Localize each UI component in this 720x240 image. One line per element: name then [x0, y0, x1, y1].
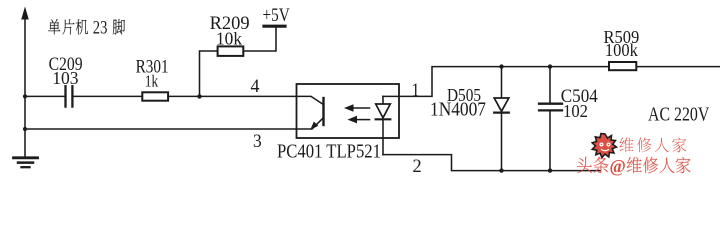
- node: junction to R209 branch: [197, 94, 201, 98]
- node: D505/top bus: [499, 64, 503, 68]
- watermark line1 维修人家: [619, 137, 686, 152]
- wire: rail to opto box pin 3: [25, 128, 297, 130]
- label: 单片机 23 脚 (MCU pin 23): [48, 19, 125, 39]
- svg-text:103: 103: [52, 68, 78, 88]
- node: D505/bottom bus: [499, 168, 503, 172]
- phototransistor collector (pin 4 side): [297, 96, 324, 104]
- power +5V bar: [264, 25, 285, 28]
- diode D505 triangle: [494, 98, 509, 111]
- wire: box pin1 to top-right bus: [383, 67, 720, 97]
- svg-text:10k: 10k: [216, 29, 242, 49]
- LED anode line (to pin 1): [382, 96, 384, 104]
- node: junction rail/lower wire: [23, 127, 27, 131]
- LED cathode line through box bottom (pin 2): [382, 119, 384, 154]
- svg-text:1N4007: 1N4007: [430, 100, 486, 121]
- svg-text:1k: 1k: [145, 72, 159, 91]
- wire: C504 bottom: [549, 111, 551, 171]
- wire: riser to R209: [200, 51, 218, 96]
- resistor R209: [218, 46, 244, 56]
- svg-text:PC401 TLP521: PC401 TLP521: [277, 140, 381, 162]
- light arrow upper: [352, 107, 370, 109]
- wire: D505 top: [501, 67, 503, 98]
- svg-text:1: 1: [412, 80, 420, 101]
- node: C504/bottom bus: [548, 168, 552, 172]
- resistor R301: [142, 92, 168, 100]
- light arrow lower: [356, 119, 370, 121]
- wire: R301 to opto box: [168, 95, 296, 97]
- svg-text:@: @: [610, 156, 626, 176]
- svg-text:+5V: +5V: [263, 5, 290, 26]
- phototransistor base bar: [322, 98, 324, 125]
- wire: D505 bottom: [501, 113, 503, 171]
- node: C504/top bus: [548, 64, 552, 68]
- node: junction rail/top wire: [23, 94, 27, 98]
- wire: C209 to R301: [74, 95, 143, 97]
- svg-text:3: 3: [253, 132, 262, 152]
- watermark line2 头条@维修人家: [577, 156, 690, 176]
- svg-text:23: 23: [93, 19, 108, 39]
- circuit schematic: optocoupler mains-sense interface: [0, 0, 720, 187]
- phototransistor emitter with arrow (pin 3 side): [297, 118, 324, 129]
- op-to box outline: [297, 84, 400, 138]
- LED triangle: [376, 104, 391, 118]
- resistor R509: [609, 62, 636, 70]
- svg-text:100k: 100k: [605, 40, 638, 60]
- node: input from MCU pin 23 (arrow): [21, 7, 29, 20]
- diode cathode bar: [494, 111, 509, 113]
- capacitor C209: [66, 86, 73, 106]
- svg-text:102: 102: [563, 101, 588, 121]
- wire: rail to C209: [25, 95, 64, 97]
- wire: pin2 steps down to bottom bus: [383, 155, 600, 171]
- LED cathode bar: [376, 118, 391, 120]
- watermark logo: [592, 134, 616, 158]
- capacitor C504 plates: [539, 104, 562, 111]
- wire: left vertical rail: [24, 13, 26, 158]
- svg-text:AC 220V: AC 220V: [648, 104, 709, 125]
- svg-text:4: 4: [251, 77, 260, 97]
- wire: R209 to +5V: [243, 28, 276, 52]
- svg-text:2: 2: [413, 156, 422, 177]
- wire: C504 top: [549, 67, 551, 103]
- ground: [14, 158, 38, 167]
